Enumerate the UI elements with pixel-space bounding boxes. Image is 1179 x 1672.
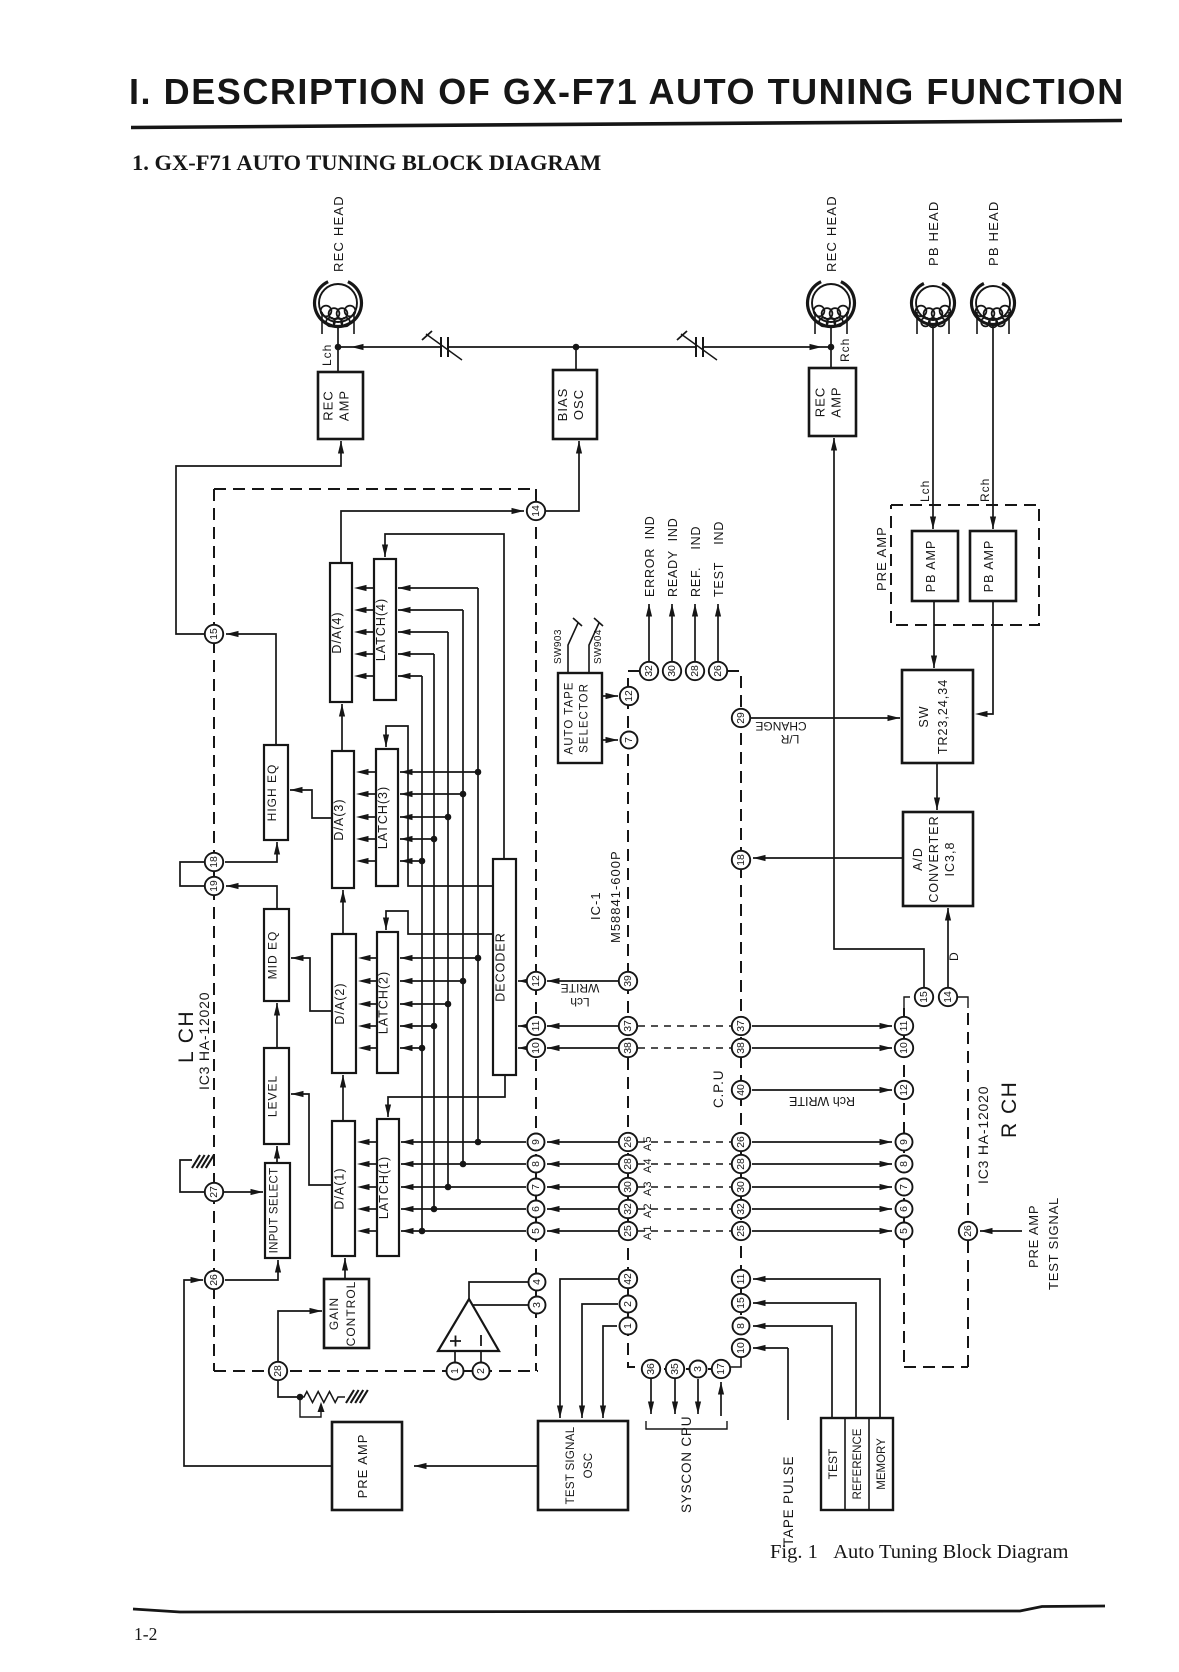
wire pin29 to SW L/R change — [751, 715, 900, 721]
wire pin 12 to DECODER — [518, 978, 531, 984]
wire LATCH(2) to D/A(2) row 981 — [358, 978, 377, 984]
pin 35 syscon — [666, 1360, 684, 1378]
pin 26 CPU test ind — [709, 662, 727, 680]
svg-text:TEST SIGNAL: TEST SIGNAL — [565, 1426, 577, 1504]
pin 14 IC-1 — [527, 502, 545, 520]
svg-text:HIGH EQ: HIGH EQ — [265, 764, 279, 822]
svg-text:REC: REC — [813, 387, 828, 417]
pin 11 CPU R — [732, 1270, 750, 1288]
pin 1 CPU — [620, 1318, 637, 1335]
node bus junction (434,839) — [431, 836, 438, 843]
wire LATCH(2) to D/A(2) row 1048 — [358, 1045, 377, 1051]
svg-text:D/A(4): D/A(4) — [330, 611, 344, 653]
svg-text:7: 7 — [899, 1184, 910, 1190]
pin 25 CPU R — [732, 1222, 750, 1240]
pin 30 CPU ready ind — [663, 662, 681, 680]
wire pin 42 to test signal osc — [557, 1279, 618, 1418]
label A3 — [642, 1181, 654, 1196]
pin 8 CPU R — [733, 1318, 750, 1335]
svg-text:9: 9 — [899, 1139, 910, 1145]
wire bias osc top stem — [575, 347, 577, 370]
wire potentiometer wiper — [300, 1397, 325, 1417]
svg-text:CONTROL: CONTROL — [344, 1281, 358, 1347]
pin 30 CPU R — [732, 1178, 750, 1196]
node bus junction (448,817) — [445, 814, 452, 821]
pin 26 RCH — [959, 1222, 977, 1240]
inductor REC HEAD L — [315, 282, 362, 334]
block PRE AMP bottom — [332, 1422, 402, 1510]
pin 18 CPU — [732, 851, 750, 869]
node bus junction (478,958) — [475, 955, 482, 962]
label Lch WRITE — [561, 981, 600, 1009]
wire bus to LATCH(2) input row 1026 — [400, 1023, 434, 1029]
svg-text:7: 7 — [624, 737, 635, 743]
svg-text:39: 39 — [623, 975, 634, 987]
svg-text:32: 32 — [644, 665, 655, 677]
block SW TR23,24,34 — [902, 670, 973, 763]
wire data bus line A3 vertical — [447, 632, 449, 1187]
wire MEMORY to pin 11 — [753, 1276, 880, 1418]
ground input select pin 27 — [192, 1155, 214, 1168]
block REC AMP R — [809, 368, 856, 436]
pin 26 CPU R — [732, 1133, 750, 1151]
svg-text:LATCH(2): LATCH(2) — [377, 971, 391, 1034]
wire LATCH(4) to D/A(4) row 654 — [354, 651, 374, 657]
block PB AMP R — [970, 531, 1016, 601]
svg-text:GAIN: GAIN — [327, 1297, 341, 1330]
node bus junction (448,1004) — [445, 1001, 452, 1008]
svg-text:14: 14 — [943, 991, 954, 1003]
label REC HEAD L — [331, 195, 346, 272]
svg-text:PRE AMP: PRE AMP — [355, 1434, 370, 1499]
net RCH dashed right edge — [967, 1008, 969, 1367]
wire LATCH(4) to D/A(4) row 632 — [354, 629, 374, 635]
svg-text:42: 42 — [623, 1273, 634, 1285]
svg-text:TEST SIGNAL: TEST SIGNAL — [1046, 1197, 1061, 1290]
net IC-1 dashed boundary top — [214, 488, 535, 490]
wire LATCH(1) to D/A(1) row 1142 — [357, 1139, 377, 1145]
node bus junction (478,772) — [475, 769, 482, 776]
net PRE AMP dashed box — [891, 505, 1039, 625]
svg-text:TEST: TEST — [826, 1448, 840, 1479]
svg-text:10: 10 — [736, 1342, 747, 1354]
wire GAIN CONTROL to D/A(1) — [342, 1258, 348, 1279]
svg-text:1: 1 — [623, 1323, 634, 1329]
svg-text:1. GX-F71 AUTO TUNING BLOCK DI: 1. GX-F71 AUTO TUNING BLOCK DIAGRAM — [132, 150, 601, 175]
svg-text:12: 12 — [624, 690, 635, 702]
wire indicator pin 28 arrow — [692, 604, 698, 661]
label IC3 HA-12020 left — [196, 992, 212, 1090]
wire D/A(1) to D/A(2) — [340, 1075, 346, 1121]
svg-text:Lch: Lch — [320, 344, 334, 366]
wire indicator pin 30 arrow — [669, 604, 675, 661]
wire pin 8 to LATCH(1) input row 1164 — [401, 1161, 526, 1167]
wire bus to LATCH(3) input row 839 — [400, 836, 434, 842]
wire data bus line A5 vertical — [477, 588, 479, 1142]
pin 2 CPU — [620, 1296, 637, 1313]
inductor PB HEAD L — [912, 284, 955, 335]
net CPU dashed link row 1026 — [638, 1025, 731, 1027]
pin 11 IC-1 — [527, 1017, 545, 1035]
node bus junction (478,1142) — [475, 1139, 482, 1146]
wire tape pulse to pin 10 — [753, 1345, 788, 1351]
wire pin 5 to LATCH(1) input row 1231 — [401, 1228, 526, 1234]
svg-text:2: 2 — [623, 1301, 634, 1307]
label Lch rec — [320, 344, 334, 366]
pin 9 IC-1 — [528, 1134, 545, 1151]
net RCH bracket pin 14 — [958, 997, 968, 1008]
pin 29 CPU — [732, 709, 750, 727]
wire D/A(3) to HIGH EQ — [290, 787, 332, 818]
wire auto tape selector to pin 7 — [602, 737, 618, 743]
label Rch pb — [978, 478, 992, 502]
svg-text:15: 15 — [736, 1297, 747, 1309]
svg-text:IC-1: IC-1 — [588, 891, 603, 920]
wire LATCH(1) to D/A(1) row 1231 — [357, 1228, 377, 1234]
ground potentiometer — [346, 1390, 368, 1403]
svg-text:26: 26 — [623, 1136, 634, 1148]
wire LATCH(2) to D/A(2) row 958 — [358, 955, 377, 961]
pin 28 CPU A4 — [619, 1155, 637, 1173]
wire pin 9 to LATCH(1) input row 1142 — [401, 1139, 526, 1145]
label PB HEAD R — [986, 201, 1001, 266]
net RCH dashed bottom edge — [904, 1366, 968, 1368]
svg-text:11: 11 — [531, 1020, 542, 1031]
block HIGH EQ — [264, 745, 288, 840]
svg-text:10: 10 — [899, 1042, 910, 1054]
block REC AMP L — [318, 372, 363, 439]
svg-text:A2: A2 — [642, 1203, 654, 1218]
block INPUT SELECT — [265, 1163, 290, 1258]
svg-text:C.P.U: C.P.U — [711, 1070, 726, 1108]
svg-text:TR23,24,34: TR23,24,34 — [936, 679, 950, 754]
svg-text:D/A(2): D/A(2) — [333, 982, 347, 1024]
wire LATCH(4) to D/A(4) row 588 — [354, 585, 374, 591]
svg-text:TAPE PULSE: TAPE PULSE — [781, 1456, 796, 1546]
label Lch pb — [918, 480, 932, 502]
wire bus to LATCH(4) input row 676 — [398, 673, 422, 679]
pin 2 IC-1 — [473, 1363, 490, 1380]
svg-text:36: 36 — [646, 1363, 657, 1375]
wire bus to LATCH(2) input row 1004 — [400, 1001, 448, 1007]
wire bus to LATCH(3) input row 817 — [400, 814, 448, 820]
switch SW904 — [589, 618, 603, 673]
svg-text:L CH: L CH — [175, 1010, 198, 1063]
svg-text:DECODER: DECODER — [494, 932, 508, 1002]
svg-text:14: 14 — [531, 505, 542, 517]
title rule — [131, 121, 1122, 128]
wire op-amp feedback to pin 3 — [473, 1304, 528, 1306]
wire LATCH(1) to D/A(1) row 1164 — [357, 1161, 377, 1167]
net IC-1 dashed boundary right — [535, 489, 537, 1371]
wire indicator pin 26 arrow — [715, 604, 721, 661]
wire LATCH(3) to D/A(3) row 839 — [356, 836, 376, 842]
block MID EQ — [264, 909, 289, 1001]
svg-text:Lch: Lch — [918, 480, 932, 502]
label D — [947, 951, 961, 961]
svg-text:SELECTOR: SELECTOR — [579, 683, 591, 753]
node bus junction (434,1209) — [431, 1206, 438, 1213]
wire CPU pin 30 to IC-1 pin 7 — [547, 1184, 618, 1190]
pin 3 IC-1 — [529, 1297, 546, 1314]
svg-text:19: 19 — [209, 880, 220, 892]
block BIAS OSC — [553, 370, 597, 439]
block TEST/REFERENCE/MEMORY — [821, 1418, 893, 1510]
wire pin 6 to LATCH(1) input row 1209 — [401, 1206, 526, 1212]
resistor potentiometer R — [300, 1392, 345, 1403]
pin 1 IC-1 — [447, 1363, 464, 1380]
svg-text:2: 2 — [476, 1368, 487, 1374]
svg-text:29: 29 — [736, 712, 747, 724]
svg-text:AMP: AMP — [829, 386, 844, 417]
wire tape pulse stub — [787, 1348, 789, 1420]
wire LATCH(1) to D/A(1) row 1209 — [357, 1206, 377, 1212]
svg-text:REF. IND: REF. IND — [689, 526, 703, 597]
wire CPU pin 28 to RCH pin 8 — [752, 1161, 892, 1167]
wire D/A(2) to D/A(3) — [340, 890, 346, 934]
svg-text:25: 25 — [736, 1225, 747, 1237]
label C.P.U — [711, 1070, 726, 1108]
wire A/D output to pin 18 — [753, 855, 903, 861]
net RCH bracket pin 15 — [904, 997, 910, 1008]
wire CPU pin 32 to IC-1 pin 6 — [547, 1206, 618, 1212]
svg-text:A1: A1 — [642, 1225, 654, 1240]
wire HIGH EQ to pin 15 — [226, 631, 276, 745]
pin 10 RCH — [895, 1039, 913, 1057]
wire D/A(4) to pin 14 — [341, 508, 524, 563]
svg-text:TEST IND: TEST IND — [712, 521, 726, 597]
wire pb head R to PB AMP — [990, 325, 996, 529]
svg-text:12: 12 — [531, 975, 542, 987]
svg-text:26: 26 — [713, 665, 724, 677]
block LATCH(1) — [377, 1119, 399, 1256]
label A5 — [642, 1136, 654, 1151]
pin 12 RCH — [895, 1081, 913, 1099]
svg-text:BIAS: BIAS — [555, 388, 570, 422]
wire D/A(3) to D/A(4) — [339, 704, 345, 751]
label R CH — [998, 1081, 1021, 1138]
wire pin 7 to LATCH(1) input row 1187 — [401, 1184, 526, 1190]
svg-text:IC3 HA-12020: IC3 HA-12020 — [196, 992, 212, 1090]
net IC-1 dashed boundary left — [213, 489, 215, 1371]
node bus junction (463,1164) — [460, 1161, 467, 1168]
wire bus to LATCH(2) input row 981 — [400, 978, 463, 984]
wire bus to LATCH(3) input row 861 — [400, 858, 422, 864]
svg-text:11: 11 — [899, 1020, 910, 1031]
svg-text:IC3 HA-12020: IC3 HA-12020 — [975, 1086, 991, 1184]
svg-text:PB AMP: PB AMP — [982, 540, 996, 593]
wire pin 2 to test signal osc — [579, 1304, 618, 1418]
wire TEST to pin 8 — [753, 1323, 832, 1418]
pin 28 CPU ref ind — [686, 662, 704, 680]
wire bus to LATCH(4) input row 632 — [398, 629, 448, 635]
wire pin 27 to INPUT SELECT — [224, 1189, 263, 1195]
wire LATCH(2) to D/A(2) row 1026 — [358, 1023, 377, 1029]
label A1 — [642, 1225, 654, 1240]
svg-text:SW904: SW904 — [593, 629, 604, 664]
svg-text:A3: A3 — [642, 1181, 654, 1196]
svg-text:38: 38 — [623, 1042, 634, 1054]
svg-text:37: 37 — [623, 1020, 634, 1032]
label REF. IND — [689, 526, 703, 597]
svg-text:PB AMP: PB AMP — [924, 540, 938, 593]
node bus junction (448,1187) — [445, 1184, 452, 1191]
wire bus to LATCH(4) input row 610 — [398, 607, 463, 613]
wire D/A(2) to MID EQ — [291, 955, 332, 1011]
net CPU dashed link row 1231 — [638, 1230, 731, 1232]
wire bus to LATCH(4) input row 588 — [398, 585, 478, 591]
net CPU dashed link row 1187 — [638, 1186, 731, 1188]
wire CPU pin 40 to RCH pin 12 — [752, 1087, 892, 1093]
svg-text:35: 35 — [670, 1363, 681, 1375]
label A2 — [642, 1203, 654, 1218]
net IC-1 dashed boundary bottom — [214, 1370, 538, 1372]
pin 10 IC-1 — [527, 1039, 545, 1057]
pin 19 IC-1 — [205, 877, 223, 895]
wire indicator pin 32 arrow — [646, 604, 652, 661]
op-amp comparator — [438, 1299, 499, 1351]
pin 12 CPU tape sel — [620, 687, 638, 705]
svg-text:25: 25 — [623, 1225, 634, 1237]
wire CPU pin 25 to IC-1 pin 5 — [547, 1228, 618, 1234]
wire bias bus segment C — [704, 344, 831, 350]
svg-text:R CH: R CH — [998, 1081, 1021, 1138]
label SW904 — [593, 629, 604, 664]
wire bus to LATCH(3) input row 794 — [400, 791, 463, 797]
pin 14 RCH — [939, 988, 957, 1006]
label SYSCON CPU — [679, 1416, 694, 1513]
svg-text:Rch WRITE: Rch WRITE — [789, 1094, 855, 1108]
wire op-amp output to pin 4 — [469, 1282, 528, 1299]
wire LATCH(3) to D/A(3) row 772 — [356, 769, 376, 775]
svg-text:9: 9 — [531, 1139, 542, 1145]
node bias osc junction — [573, 344, 580, 351]
pin 28 CPU R — [732, 1155, 750, 1173]
wire LATCH(1) to D/A(1) row 1187 — [357, 1184, 377, 1190]
pin 32 CPU A2 — [619, 1200, 637, 1218]
wire pin 15L to REC AMP L — [176, 441, 344, 634]
svg-text:30: 30 — [736, 1181, 747, 1193]
pin 17 syscon — [712, 1360, 730, 1378]
label Rch WRITE — [789, 1094, 855, 1108]
wire pin 26 to INPUT SELECT — [225, 1260, 281, 1280]
pin 3 syscon — [690, 1361, 707, 1378]
wire CPU pin 26 to IC-1 pin 9 — [547, 1139, 618, 1145]
pin 37 CPU R — [732, 1017, 750, 1035]
wire rec head R stem — [830, 327, 832, 368]
svg-text:12: 12 — [899, 1084, 910, 1096]
wire CPU pin 32 to RCH pin 6 — [752, 1206, 892, 1212]
node potentiometer junction — [297, 1394, 304, 1401]
pin 12 IC-1 — [527, 972, 545, 990]
capacitor bias trimmer L — [422, 331, 462, 360]
wire syscon pin 35 arrow — [672, 1379, 678, 1414]
pin 26 IC-1 — [205, 1271, 223, 1289]
svg-text:6: 6 — [899, 1206, 910, 1212]
svg-text:Rch: Rch — [978, 478, 992, 502]
svg-text:32: 32 — [623, 1203, 634, 1215]
switch SW903 — [568, 618, 582, 673]
svg-text:3: 3 — [532, 1302, 543, 1308]
pin 38 CPU L — [619, 1039, 637, 1057]
block DECODER — [493, 859, 516, 1075]
wire auto tape selector to pin 12 — [602, 693, 618, 699]
net CPU dashed column right — [727, 671, 741, 1356]
wire pin 18 to HIGH EQ — [225, 842, 280, 862]
wire CPU pin 37 to IC-1 pin 11 — [547, 1023, 618, 1029]
wire pin 28 to GAIN CONTROL — [278, 1308, 322, 1361]
svg-text:7: 7 — [531, 1184, 542, 1190]
wire decoder to LATCH(4) clock — [382, 534, 504, 859]
svg-text:AUTO TAPE: AUTO TAPE — [564, 682, 576, 755]
svg-text:D/A(3): D/A(3) — [332, 798, 346, 840]
wire syscon pin 3 arrow — [695, 1379, 701, 1414]
wire decoder to LATCH(3) clock — [383, 726, 493, 886]
svg-text:IC3,8: IC3,8 — [943, 842, 957, 877]
svg-text:REC HEAD: REC HEAD — [824, 195, 839, 272]
svg-text:MEMORY: MEMORY — [876, 1438, 888, 1490]
pin 38 CPU R — [732, 1039, 750, 1057]
wire LATCH(3) to D/A(3) row 861 — [356, 858, 376, 864]
wire bias osc input from pin 14 — [546, 441, 582, 511]
wire op-amp input pin 2 stub — [480, 1351, 482, 1363]
svg-text:PB HEAD: PB HEAD — [926, 201, 941, 266]
svg-text:26: 26 — [736, 1136, 747, 1148]
svg-text:REFERENCE: REFERENCE — [852, 1428, 864, 1499]
pin 5 RCH — [896, 1223, 913, 1240]
svg-text:A/D: A/D — [911, 847, 925, 871]
svg-text:28: 28 — [736, 1158, 747, 1170]
wire CPU pin 38 to RCH pin 10 — [752, 1045, 892, 1051]
svg-text:18: 18 — [736, 854, 747, 866]
svg-text:26: 26 — [209, 1274, 220, 1286]
label Rch rec — [838, 338, 852, 362]
block TEST SIGNAL OSC — [538, 1421, 628, 1510]
wire data bus line A4 vertical — [462, 610, 464, 1164]
wire LEVEL to MID EQ — [274, 1003, 280, 1048]
pin 15 RCH — [915, 988, 933, 1006]
node bus junction (422,861) — [419, 858, 426, 865]
pin 32 CPU error ind — [640, 662, 658, 680]
svg-text:28: 28 — [273, 1365, 284, 1377]
block GAIN CONTROL — [324, 1279, 369, 1348]
net CPU dashed link row 1209 — [638, 1208, 731, 1210]
wire D/A(1) to LEVEL — [291, 1091, 332, 1185]
wire syscon pin 36 arrow — [648, 1379, 654, 1414]
svg-text:5: 5 — [899, 1228, 910, 1234]
block PB AMP L — [912, 531, 958, 601]
label ERROR IND — [643, 515, 657, 597]
svg-text:17: 17 — [716, 1363, 727, 1375]
svg-text:5: 5 — [531, 1228, 542, 1234]
wire pin 11 to DECODER — [518, 1023, 531, 1029]
wire REFERENCE to pin 15 — [753, 1300, 856, 1418]
pin 27 IC-1 — [205, 1183, 223, 1201]
wire bus to LATCH(2) input row 1048 — [400, 1045, 422, 1051]
svg-text:8: 8 — [531, 1161, 542, 1167]
svg-text:10: 10 — [531, 1042, 542, 1054]
pin 30 CPU A3 — [619, 1178, 637, 1196]
wire LATCH(3) to D/A(3) row 817 — [356, 814, 376, 820]
inductor REC HEAD R — [807, 282, 854, 334]
svg-text:REC HEAD: REC HEAD — [331, 195, 346, 272]
svg-text:MID EQ: MID EQ — [266, 931, 280, 980]
figure caption — [770, 1541, 1068, 1563]
pin 7 RCH — [896, 1179, 913, 1196]
pin 18 IC-1 — [205, 853, 223, 871]
wire bus to LATCH(3) input row 772 — [400, 769, 478, 775]
svg-text:4: 4 — [532, 1279, 543, 1285]
